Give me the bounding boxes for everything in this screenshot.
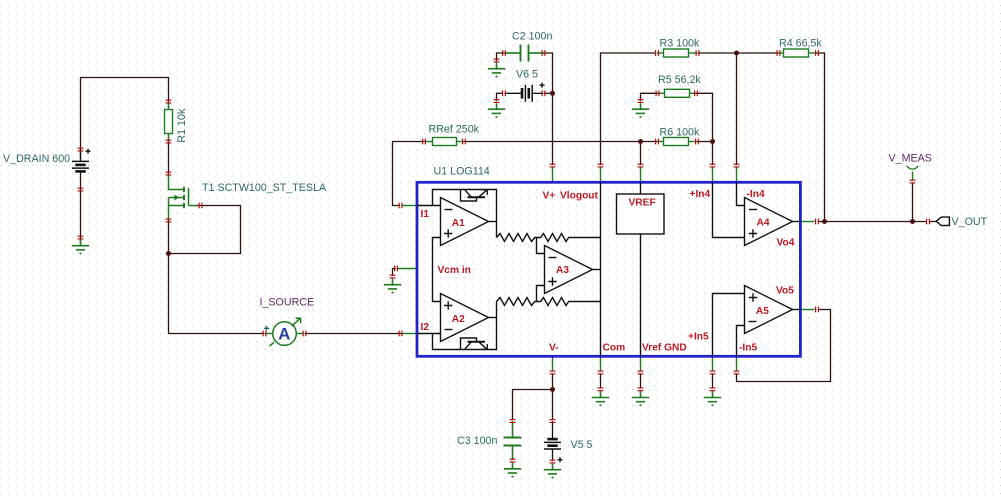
- capacitor C2: [505, 45, 544, 62]
- wire R4 right down to Vo4 net: [817, 53, 825, 222]
- wire A2 out to tip: [489, 317, 497, 319]
- resistor zigzag A3 bottom to Com: [537, 298, 601, 306]
- wire R6 left stub: [641, 141, 658, 143]
- ground below C2: [488, 63, 505, 77]
- svg-text:V6 5: V6 5: [516, 69, 538, 81]
- pin Com stub: [600, 357, 602, 371]
- svg-text:V_MEAS: V_MEAS: [889, 152, 932, 164]
- junction node V_MEAS/V_OUT: [910, 219, 915, 224]
- wire +In5 pin to ground: [712, 374, 714, 389]
- pin V- stub: [552, 357, 554, 371]
- wire Vref GND pin to ground: [640, 374, 642, 389]
- svg-text:T1 SCTW100_ST_TESLA: T1 SCTW100_ST_TESLA: [202, 182, 327, 194]
- junction node Vo4/R4: [822, 219, 827, 224]
- svg-text:I2: I2: [421, 322, 430, 333]
- wire Com pin to ground: [600, 374, 602, 389]
- pin -In5 stub: [736, 357, 738, 371]
- svg-text:V_OUT: V_OUT: [952, 216, 988, 228]
- pin I1 stub: [403, 205, 418, 207]
- capacitor C3: [504, 421, 522, 460]
- junction node R3/R4/-In4: [734, 51, 739, 56]
- resistor RRef: [424, 138, 464, 146]
- svg-text:Vref GND: Vref GND: [642, 342, 687, 353]
- op-amp macro U1 LOG114 box: [417, 182, 800, 356]
- svg-text:V-: V-: [549, 342, 559, 353]
- wire RRef right to node R6-left: [464, 141, 641, 143]
- svg-text:I1: I1: [421, 209, 430, 220]
- svg-text:A: A: [278, 325, 290, 344]
- wire R6 right stub: [697, 141, 713, 143]
- op-amp A4: [713, 182, 801, 245]
- pin Vlogout stub: [600, 168, 602, 183]
- resistor R4: [777, 49, 817, 57]
- svg-text:Vo5: Vo5: [776, 286, 794, 297]
- wire ammeter to I2 pin: [305, 333, 402, 335]
- svg-text:V5 5: V5 5: [571, 439, 593, 451]
- pin VREF-in stub: [640, 168, 642, 183]
- internal net Vlogout-Com vertical: [600, 182, 602, 356]
- svg-text:A5: A5: [756, 306, 769, 317]
- svg-text:A1: A1: [452, 218, 465, 229]
- battery V6: [505, 83, 545, 102]
- svg-text:R6 100k: R6 100k: [660, 127, 700, 139]
- svg-text:+In5: +In5: [688, 332, 709, 343]
- resistor zigzag A1-A3: [497, 234, 537, 242]
- ground below R5: [632, 103, 649, 117]
- wire C2 right down V+ vertical: [543, 53, 553, 165]
- svg-text:Vcm in: Vcm in: [438, 265, 471, 276]
- wire V_OUT stub: [930, 221, 937, 223]
- resistor R1: [165, 102, 173, 142]
- svg-text:Com: Com: [603, 342, 626, 353]
- junction node V-/C3/V5: [550, 387, 555, 392]
- wire Vo5 feedback loop to -In5: [737, 310, 831, 382]
- pin I2 stub: [403, 333, 418, 335]
- junction node T1 source/gate: [166, 251, 171, 256]
- resistor R5: [658, 89, 696, 97]
- wire R3 left down to Vlogout pin: [601, 53, 657, 165]
- resistor R3: [657, 49, 697, 57]
- pin +In4 stub: [712, 168, 714, 183]
- svg-text:C3 100n: C3 100n: [457, 435, 497, 447]
- pin +In5 stub: [712, 357, 714, 371]
- svg-text:A2: A2: [452, 314, 465, 325]
- transistor T1: [169, 174, 198, 220]
- svg-text:R1 10k: R1 10k: [176, 108, 188, 143]
- log transistor A2 feedback: [433, 302, 497, 350]
- wire V_DRAIN top to R1 top: [81, 78, 169, 161]
- wire R1 bottom to T1 drain: [168, 135, 170, 174]
- wire A1 out to tip: [489, 221, 497, 223]
- resistor zigzag A2-A3: [497, 298, 537, 306]
- svg-text:V+: V+: [543, 191, 556, 202]
- ground at Vcm pin: [384, 279, 401, 293]
- battery V_DRAIN: [72, 149, 91, 172]
- ground below V6: [488, 103, 505, 117]
- op-amp A3: [537, 238, 601, 302]
- pin Vo4 stub: [801, 221, 815, 223]
- svg-text:I_SOURCE: I_SOURCE: [260, 297, 315, 309]
- junction node RRef/R6/VREF: [638, 139, 643, 144]
- wire node down to -In4 pin: [736, 53, 738, 165]
- ground below Vref GND: [632, 392, 649, 406]
- resistor zigzag A3 feedback top: [537, 234, 601, 242]
- wire V6 left to ground: [497, 93, 504, 101]
- wire node R6-left down to VREF pin: [640, 142, 642, 166]
- ammeter I_SOURCE: [264, 318, 305, 346]
- wire R5 left to ground: [641, 93, 659, 101]
- wire supply node to V5: [552, 390, 554, 421]
- ground below C3: [504, 463, 521, 477]
- svg-text:-In5: -In5: [739, 342, 757, 353]
- wire supply node to C3: [513, 390, 553, 421]
- svg-text:A3: A3: [556, 265, 569, 276]
- pin Vcm stub: [398, 268, 417, 270]
- wire R4 left to node: [737, 52, 777, 54]
- wire RRef left to I1 pin: [393, 142, 425, 206]
- VREF block: [617, 182, 665, 356]
- wire T1 gate to source junction: [171, 206, 241, 254]
- svg-text:R5 56,2k: R5 56,2k: [658, 74, 701, 86]
- op-amp A5: [713, 286, 801, 357]
- ground below +In5: [704, 392, 721, 406]
- pin V+ stub: [552, 168, 554, 183]
- svg-text:VREF: VREF: [629, 198, 656, 209]
- svg-text:Vlogout: Vlogout: [560, 191, 599, 202]
- ground below V_DRAIN: [72, 240, 89, 254]
- wire V6 right to V+ node: [544, 92, 553, 94]
- pin -In4 stub: [736, 168, 738, 183]
- wire Vcm pin to ground: [393, 269, 397, 277]
- wire Vo4 output row to V_OUT: [818, 221, 927, 223]
- svg-text:R3 100k: R3 100k: [660, 38, 700, 50]
- op-amp A2: [417, 269, 489, 342]
- battery V5: [544, 421, 563, 462]
- pin Vo5 stub: [801, 309, 815, 311]
- svg-text:RRef 250k: RRef 250k: [429, 124, 480, 136]
- op-amp A1: [417, 198, 489, 269]
- output terminal V_OUT: [936, 217, 949, 225]
- svg-text:+In4: +In4: [690, 189, 711, 200]
- svg-text:C2 100n: C2 100n: [512, 30, 552, 42]
- wire V_DRAIN bottom to ground: [80, 173, 82, 244]
- svg-text:V_DRAIN 600: V_DRAIN 600: [3, 153, 70, 165]
- wire V_MEAS down to output row: [912, 183, 914, 222]
- pin marks (red): [78, 50, 930, 463]
- junction node R5/R6/+In4: [710, 139, 715, 144]
- ground below V5: [544, 464, 561, 478]
- svg-text:Vo4: Vo4: [777, 237, 795, 248]
- wire node R6-right down to +In4 pin: [712, 142, 714, 166]
- pin VrefGND stub: [640, 357, 642, 371]
- resistor R6: [657, 138, 697, 146]
- svg-text:-In4: -In4: [747, 189, 765, 200]
- junction node V6/V+: [550, 91, 555, 96]
- voltage pin V_MEAS probe: [907, 166, 919, 180]
- svg-text:R4 66,5k: R4 66,5k: [779, 38, 822, 50]
- MACRO PIN STUBS (green): [398, 168, 815, 371]
- wire T1 source down to ammeter: [169, 218, 265, 334]
- svg-text:U1 LOG114: U1 LOG114: [434, 165, 490, 177]
- ground below Com: [592, 392, 609, 406]
- svg-text:A4: A4: [757, 217, 770, 228]
- log transistor A1 feedback: [433, 190, 497, 238]
- wire C2 left to ground: [497, 53, 506, 61]
- wire V- pin down to supply node: [552, 374, 554, 390]
- wire R3 right to node: [698, 52, 737, 54]
- wire R5 right down to R6 right node: [696, 93, 713, 141]
